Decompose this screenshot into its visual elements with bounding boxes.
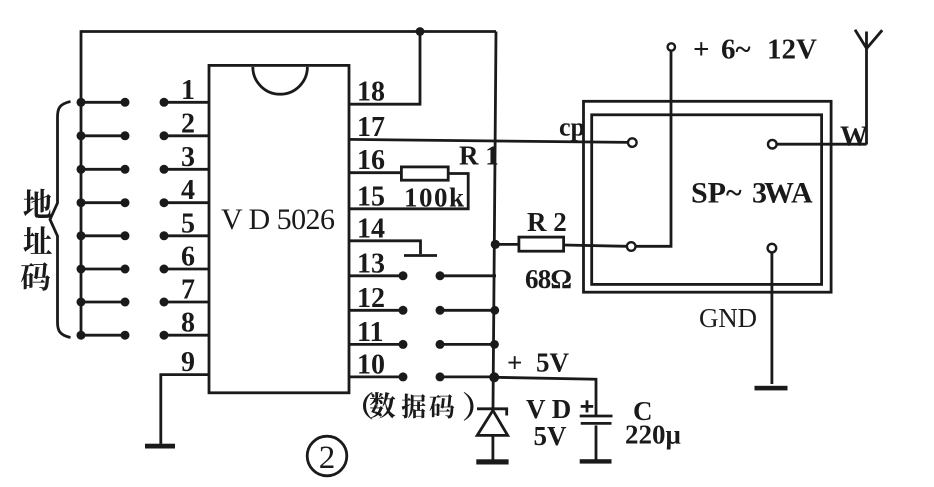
antenna [855, 30, 882, 145]
svg-text:A: A [791, 177, 813, 210]
IC U1 VD5026 body [209, 65, 349, 392]
address switch row pin 7 [77, 298, 210, 307]
pin 14 terminator bar [404, 254, 437, 257]
data switch row pin 12 [349, 306, 496, 315]
wire pin 9 to ground [161, 375, 209, 444]
address switch row pin 5 [77, 231, 210, 240]
wire R1 to pin 15 [349, 174, 468, 209]
svg-text:GND: GND [699, 303, 761, 333]
node junction of pin18 riser on top bus [416, 27, 425, 36]
wire bus to R2 [495, 243, 519, 246]
address switch row pin 8 [77, 331, 210, 340]
resistor R1 body [401, 167, 448, 180]
svg-text:100k: 100k [404, 183, 464, 213]
capacitor C plus sign [581, 400, 594, 412]
svg-text:5V: 5V [536, 348, 570, 378]
wire capacitor to ground [595, 425, 598, 459]
svg-text:W: W [840, 122, 868, 153]
capacitor C top plate [580, 415, 613, 418]
svg-text:12V: 12V [767, 34, 817, 66]
ground under zener [476, 459, 508, 464]
svg-text:6: 6 [181, 242, 195, 273]
wire pin 16 to R1 [349, 171, 402, 174]
svg-text:7: 7 [181, 275, 195, 306]
node R2 junction [491, 240, 500, 249]
brace for address code [50, 102, 71, 338]
svg-text:3W: 3W [752, 177, 794, 210]
data switch row pin 11 [349, 340, 496, 349]
wire GND terminal to ground [771, 252, 774, 384]
svg-text:V D: V D [526, 394, 571, 424]
svg-text:R 1: R 1 [459, 141, 499, 171]
ground under pin 9 [145, 444, 175, 449]
wire R2 to module terminal [564, 245, 628, 246]
wire +6~12V feed [636, 51, 672, 247]
zener diode VD cathode bar [477, 409, 507, 416]
data switch row pin 13 [349, 271, 496, 280]
svg-text:3: 3 [181, 142, 195, 173]
svg-text:R 2: R 2 [527, 207, 567, 237]
svg-text:68Ω: 68Ω [525, 264, 572, 294]
capacitor C bottom plate [581, 422, 612, 425]
svg-text:+: + [693, 34, 710, 66]
label 地址码 (address code) [21, 189, 52, 291]
terminal +6~12V [668, 43, 675, 50]
svg-text:2: 2 [181, 108, 195, 139]
wire zener anode to ground [491, 435, 494, 459]
svg-text:4: 4 [181, 175, 195, 206]
module U2 SP-3WA outer box [584, 101, 832, 292]
address switch row pin 4 [77, 198, 210, 207]
ground under capacitor [580, 459, 612, 463]
wire +5V branch [494, 377, 596, 415]
address switch row pin 6 [77, 265, 210, 274]
address switch row pin 2 [77, 131, 210, 140]
terminal W [768, 140, 777, 149]
svg-text:8: 8 [181, 308, 195, 339]
ground under module [755, 386, 788, 391]
terminal GND [768, 244, 777, 253]
wire left address rail [80, 30, 83, 336]
node row12 junction [490, 306, 499, 315]
terminal cp [628, 138, 637, 147]
svg-text:5V: 5V [534, 421, 568, 451]
node +5V junction [489, 372, 499, 382]
wire pin 17 to cp terminal [349, 139, 629, 142]
node row11 junction [490, 340, 499, 349]
address switch row pin 3 [77, 165, 210, 174]
svg-text:220μ: 220μ [625, 420, 681, 450]
IC notch [253, 67, 308, 94]
wire W to antenna [777, 143, 867, 146]
wire pin 14 stub [349, 241, 421, 254]
svg-text:1: 1 [181, 75, 195, 106]
module inner box [592, 115, 822, 285]
address switch row pin 1 [77, 98, 210, 107]
wire VDD rail (right vertical bus) [493, 32, 496, 408]
svg-text:6~: 6~ [721, 34, 751, 66]
svg-text:SP~: SP~ [691, 177, 742, 210]
figure number 2 circled [307, 436, 347, 476]
wire top supply bus [81, 30, 496, 33]
svg-text:V D 5026: V D 5026 [221, 203, 335, 236]
data switch row pin 10 [349, 372, 496, 381]
svg-text:cp: cp [559, 113, 585, 142]
label (数据码) data code [363, 392, 474, 421]
svg-text:+: + [507, 348, 522, 378]
zener diode VD triangle [477, 410, 508, 435]
resistor R2 body [519, 237, 564, 251]
module supply terminal [627, 242, 636, 251]
svg-text:5: 5 [181, 208, 195, 239]
svg-text:2: 2 [319, 440, 336, 476]
wire pin 18 riser to top bus [349, 32, 420, 105]
